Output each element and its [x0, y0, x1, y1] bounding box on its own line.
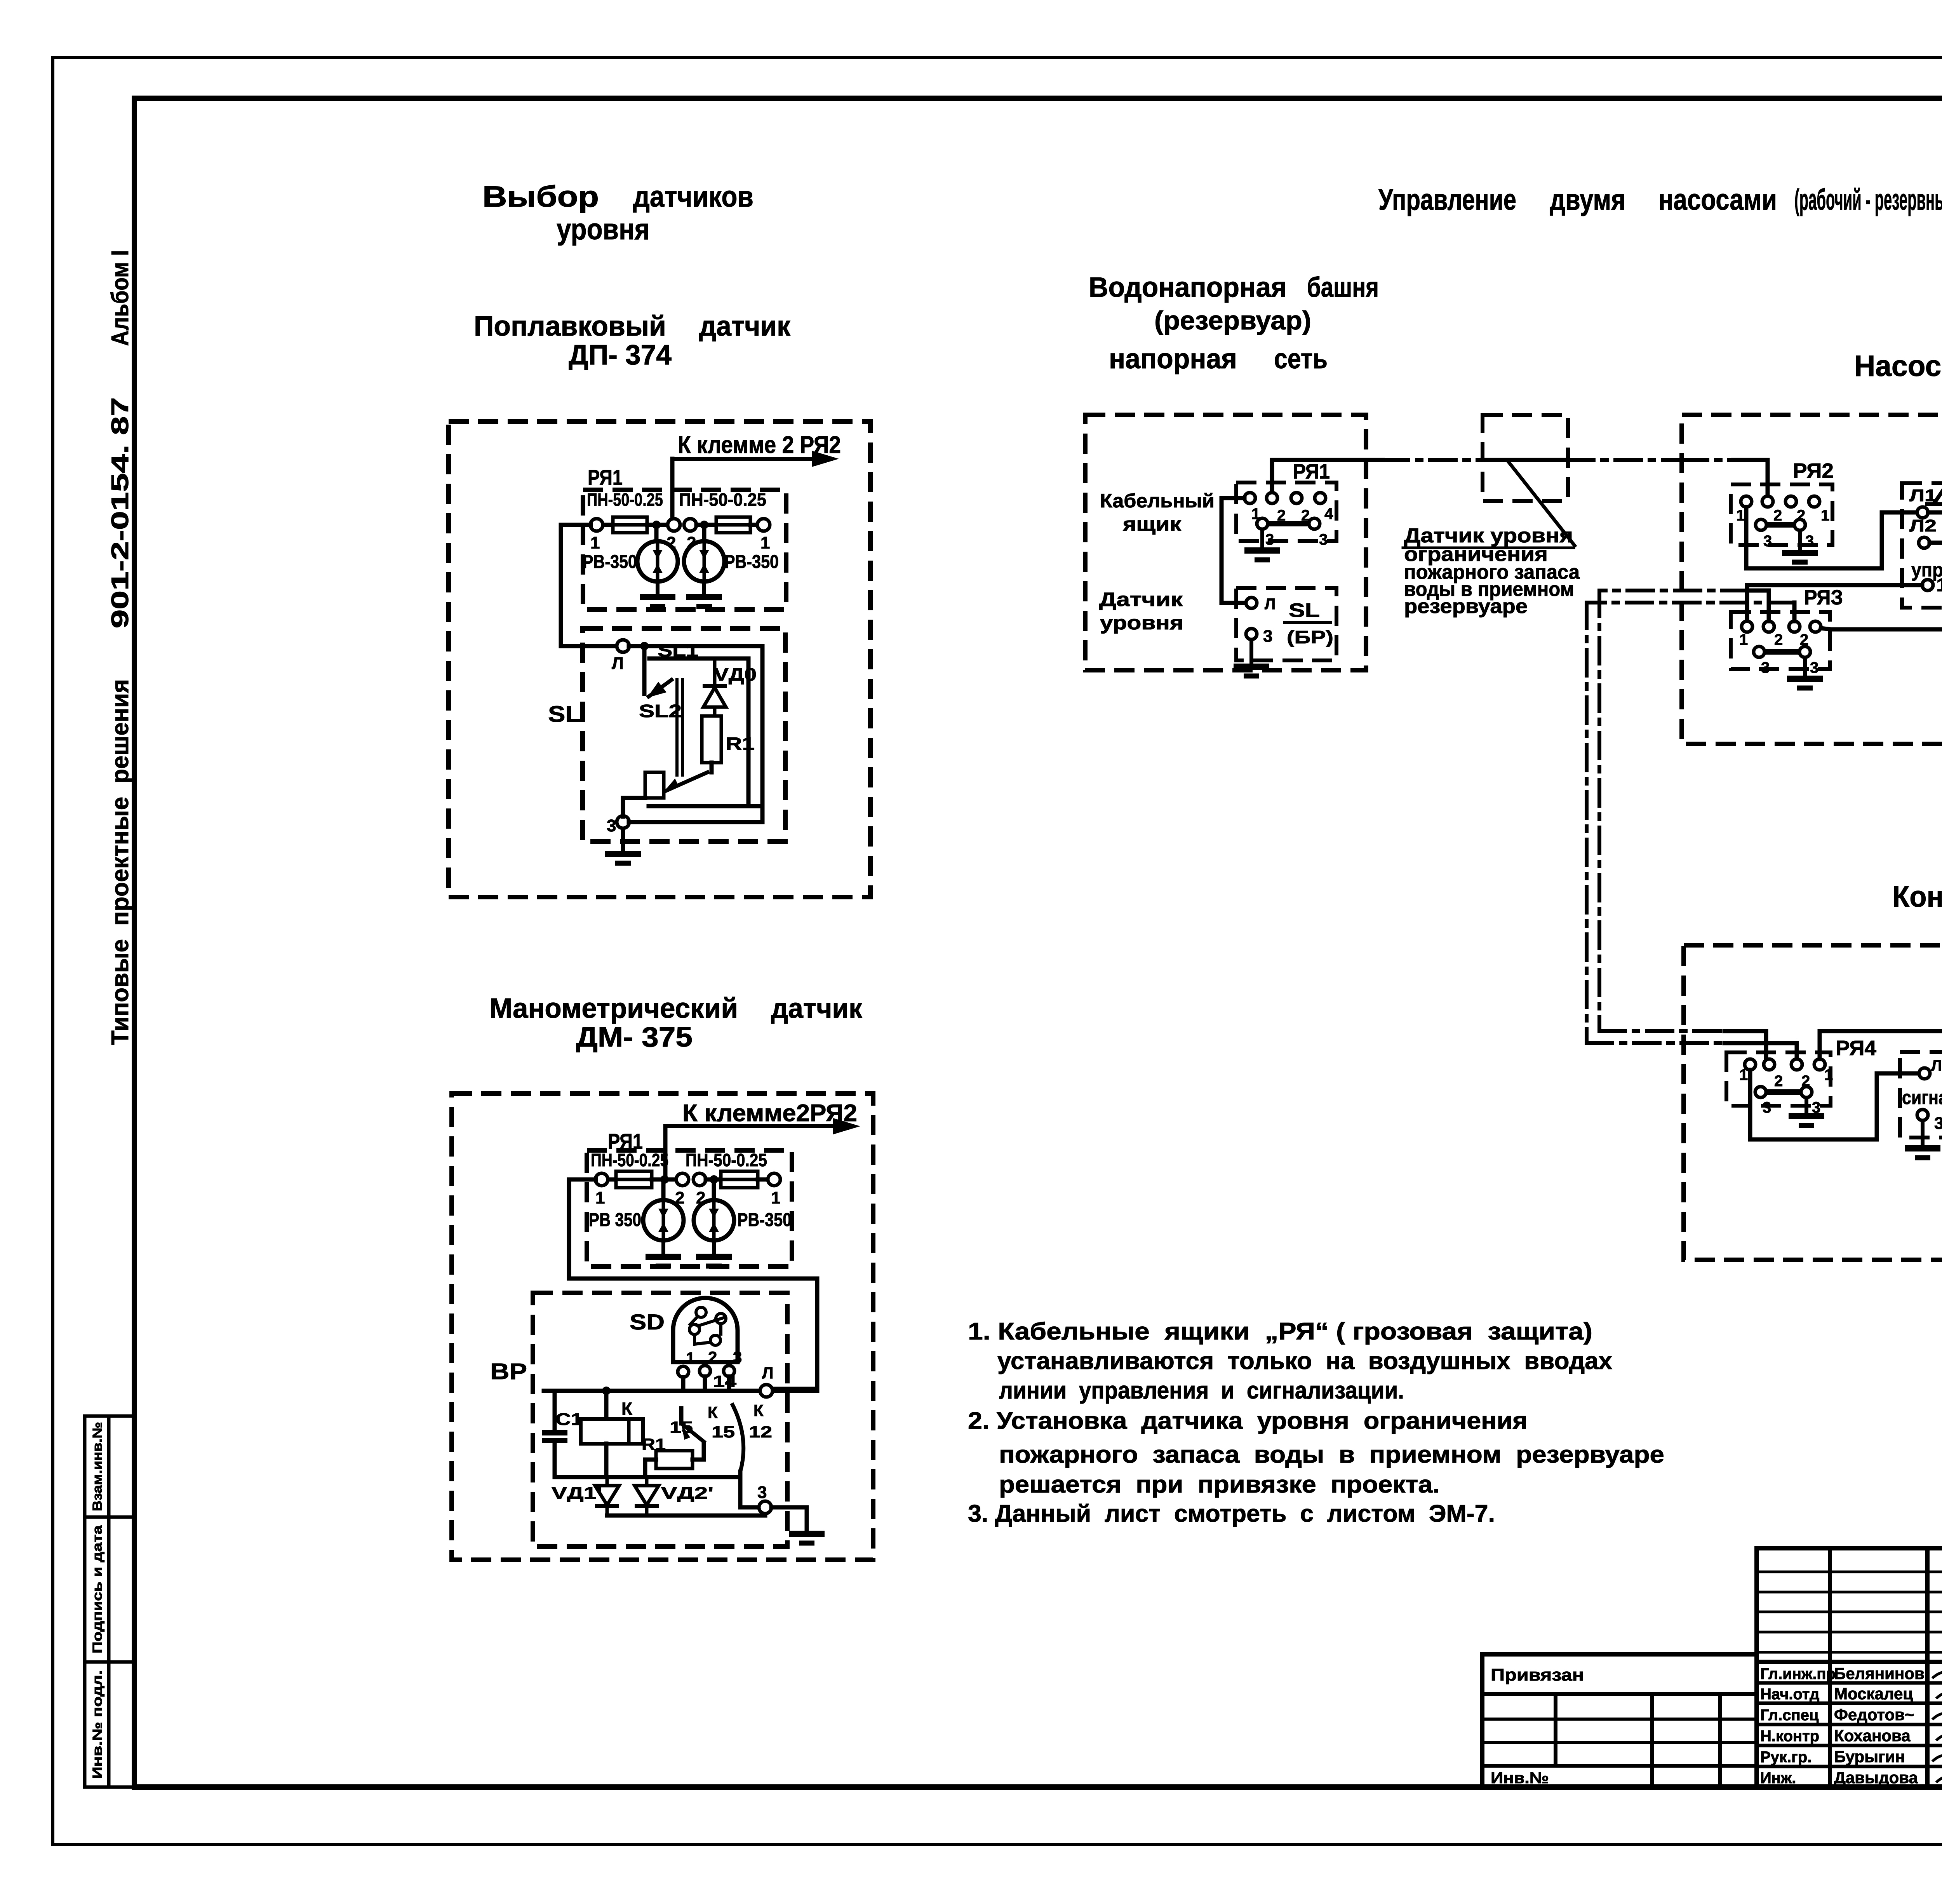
terminal 2: [668, 519, 680, 531]
svg-text:К: К: [753, 1401, 764, 1420]
svg-text:Н.контр: Н.контр: [1760, 1728, 1819, 1745]
ground under terminal 3: [605, 828, 641, 863]
terminal 2 of SD: [700, 1366, 710, 1376]
svg-text:ВР: ВР: [490, 1359, 527, 1384]
svg-text:3: 3: [733, 1348, 742, 1366]
wire 1-ЯУ:10 to РЯЗ:1: [1747, 585, 1922, 621]
svg-text:Датчик: Датчик: [1099, 589, 1183, 610]
terminal 2: [1785, 496, 1796, 507]
svg-text:ДМ- 375: ДМ- 375: [576, 1022, 693, 1053]
diode VД1: [595, 1477, 619, 1516]
svg-text:901-2-0154. 87: 901-2-0154. 87: [107, 397, 134, 629]
svg-text:1: 1: [1739, 1066, 1748, 1084]
svg-text:Федотов~: Федотов~: [1834, 1705, 1914, 1724]
float sensor ДП-374 outer dashed box: [449, 422, 870, 897]
svg-text:3: 3: [1805, 533, 1814, 550]
svg-text:линии управления и сигнализ: линии управления и сигнализации.: [999, 1377, 1404, 1404]
svg-text:Водонапорная: Водонапорная: [1089, 272, 1287, 303]
wire to РЯ2 terminal 2: [1733, 460, 1768, 496]
ground under right arrester: [696, 1240, 732, 1266]
terminal 1: [1742, 621, 1752, 632]
svg-text:Коханова: Коханова: [1834, 1726, 1911, 1745]
cable box РЯ1 dashed box: [583, 490, 786, 610]
svg-text:3: 3: [1763, 1099, 1771, 1116]
svg-text:1: 1: [1821, 507, 1829, 524]
svg-text:ПН-50-0.25: ПН-50-0.25: [591, 1150, 668, 1170]
pressure sensor ВР dashed box: [533, 1293, 787, 1547]
signatures: [1932, 1668, 1942, 1679]
wire to РЯ4:2: [1724, 1031, 1766, 1059]
wire: [561, 523, 613, 527]
terminal 1: [1741, 496, 1752, 507]
fuse ПН-50-0.25 left: [616, 1171, 652, 1188]
svg-text:насосами: насосами: [1658, 183, 1777, 216]
wire: [629, 806, 762, 822]
terminal 2: [1762, 496, 1773, 507]
svg-text:SD: SD: [630, 1310, 665, 1334]
ground under left arrester: [646, 1240, 681, 1266]
svg-text:3: 3: [757, 1483, 767, 1502]
terminal 2 right: [693, 1173, 706, 1186]
svg-text:3: 3: [1810, 659, 1818, 676]
arrester РВ-350 left: [637, 541, 678, 582]
jumper bar 3-3: [1766, 522, 1794, 528]
svg-text:4: 4: [1324, 505, 1333, 523]
terminal Л: [617, 640, 629, 652]
stamp cell Взам.инв.№: [85, 1416, 134, 1517]
svg-text:Нач.отд: Нач.отд: [1760, 1686, 1819, 1703]
wire РЯ4:1 to 1-ЯС Л: [1750, 1070, 1919, 1139]
level sensor SL dashed box: [1236, 588, 1336, 660]
svg-text:К: К: [621, 1399, 633, 1419]
svg-text:Л: Л: [1931, 1057, 1942, 1074]
terminal 1 right: [768, 1173, 780, 1186]
svg-text:РЯ1: РЯ1: [588, 465, 623, 490]
svg-text:2. Установка датчика уровня: 2. Установка датчика уровня ограничения: [968, 1408, 1528, 1434]
wire РЯ2:1 to 1-ЯУ Л1: [1746, 507, 1917, 568]
wire: [710, 763, 714, 772]
binding table frame: [1482, 1654, 1757, 1787]
svg-text:Л1: Л1: [1909, 486, 1937, 505]
svg-text:сигнализации: сигнализации: [1902, 1087, 1942, 1108]
water tower cable box outer dashed box: [1085, 415, 1366, 670]
svg-text:Инв.№ подл.: Инв.№ подл.: [90, 1670, 105, 1779]
svg-text:Манометрический: Манометрический: [489, 993, 738, 1024]
svg-text:3. Данный лист смотреть с: 3. Данный лист смотреть с листом ЭМ-7.: [968, 1500, 1495, 1527]
svg-text:Привязан: Привязан: [1491, 1665, 1584, 1685]
terminal 1: [1244, 493, 1255, 503]
terminal 2: [1267, 493, 1277, 503]
fuse ПН-50-0.25 right: [721, 1171, 758, 1188]
jumper bar 3-3: [1765, 649, 1799, 655]
wire from terminal 1 down to SL: [561, 525, 618, 646]
terminal 3 of SD: [724, 1366, 734, 1376]
svg-text:Кабельный: Кабельный: [1100, 490, 1215, 512]
ground under 1-ЯС: [1905, 1120, 1940, 1158]
svg-text:10: 10: [1936, 575, 1942, 596]
callout leader line: [1507, 460, 1576, 547]
cable box РЯ4 dashed box: [1726, 1052, 1831, 1106]
svg-text:(рабочий - резервный): (рабочий - резервный): [1794, 183, 1942, 216]
terminal 3: [1799, 646, 1810, 657]
arrow to РЯ2 terminal 2: [672, 451, 839, 467]
svg-text:3: 3: [1265, 531, 1274, 548]
cable box РЯ1 dashed box: [587, 1150, 792, 1266]
junction: [660, 1175, 669, 1184]
svg-text:датчик: датчик: [699, 311, 791, 342]
manometric sensor ДМ-375 outer dashed box: [452, 1094, 873, 1560]
svg-text:VД2': VД2': [661, 1484, 713, 1503]
fuse ПН-50-0.25 left: [613, 517, 647, 533]
svg-text:Л: Л: [1265, 596, 1276, 613]
contact SL1 lead: [642, 646, 647, 694]
capacitor C1: [542, 1433, 567, 1441]
svg-text:Подпись и дата: Подпись и дата: [90, 1525, 105, 1653]
svg-text:3: 3: [1761, 659, 1770, 676]
svg-text:РЯ4: РЯ4: [1836, 1036, 1876, 1060]
svg-text:ПН-50-0.25: ПН-50-0.25: [679, 490, 766, 510]
jumper bar 3-3: [1268, 521, 1309, 526]
diode VД2: [635, 1477, 659, 1516]
contact arm: [664, 772, 709, 792]
svg-text:Гл.спец: Гл.спец: [1760, 1707, 1819, 1724]
signal cell 1-ЯС dashed box: [1900, 1052, 1942, 1138]
svg-text:14: 14: [713, 1372, 737, 1390]
bottom contact block: [645, 772, 664, 798]
svg-text:2: 2: [1774, 631, 1783, 648]
wire: [771, 1507, 807, 1530]
cable box РЯ2 dashed box: [1731, 484, 1832, 545]
svg-text:1: 1: [771, 1188, 780, 1207]
terminal 2: [1291, 493, 1302, 503]
wire РЯЗ to 2-ЯУ:10: [1821, 628, 1942, 629]
svg-text:Инж.: Инж.: [1760, 1770, 1796, 1787]
wire: [1748, 591, 1769, 621]
svg-text:3: 3: [1263, 627, 1272, 646]
svg-text:1: 1: [760, 533, 770, 552]
svg-text:Л: Л: [762, 1364, 773, 1382]
arrester РВ-350 right: [684, 541, 724, 582]
svg-text:(БР): (БР): [1287, 627, 1333, 647]
signal line dash-dot lower: [1587, 601, 1794, 604]
underline: [1403, 547, 1574, 549]
ground under РЯ4: [1789, 1097, 1824, 1125]
top band line: [134, 96, 1942, 100]
svg-text:Гл.инж.пр: Гл.инж.пр: [1760, 1665, 1836, 1683]
svg-text:РЯЗ: РЯЗ: [1804, 586, 1843, 609]
wire from terminal 1 to ВР terminal Л: [569, 1179, 817, 1389]
wire: [727, 1376, 731, 1391]
wire Л2 to arrester: [1930, 504, 1942, 543]
svg-text:3: 3: [1934, 1114, 1942, 1133]
relay coil К: [581, 1419, 643, 1444]
svg-text:РЯ1: РЯ1: [1293, 460, 1330, 483]
signal line dash-dot vertical inner: [1597, 591, 1601, 1031]
terminal 1: [1814, 1059, 1825, 1070]
wire: [702, 525, 706, 541]
wire from РЯ1 terminal 2 up: [1272, 460, 1383, 492]
ground under РЯЗ: [1787, 657, 1823, 688]
junction: [602, 1387, 611, 1395]
terminal Л: [1246, 598, 1257, 608]
svg-text:SL2: SL2: [639, 701, 682, 721]
svg-text:(резервуар): (резервуар): [1154, 306, 1311, 335]
svg-text:решается при привязке проек: решается при привязке проекта.: [999, 1471, 1440, 1498]
svg-text:Рук.гр.: Рук.гр.: [1760, 1749, 1811, 1766]
svg-text:К: К: [708, 1403, 718, 1421]
pump station outer dashed box: [1682, 415, 1942, 744]
arrow to РЯ2 terminal 2: [665, 1118, 860, 1134]
terminal 2: [676, 1173, 689, 1186]
terminal 3 right: [1309, 518, 1320, 529]
wire through box: [1483, 458, 1568, 462]
terminal 4: [1315, 493, 1326, 503]
terminal Л: [1919, 1068, 1930, 1079]
control cell 1-ЯУ dashed box: [1902, 483, 1942, 608]
inner housing top line: [649, 657, 748, 661]
contact SL2 arm: [647, 679, 673, 698]
svg-text:2: 2: [1774, 1073, 1783, 1090]
float switch housing outline: [629, 646, 762, 806]
svg-text:ДП- 374: ДП- 374: [569, 340, 672, 371]
junction: [652, 521, 661, 529]
svg-text:1: 1: [1824, 1066, 1833, 1084]
wire: [703, 1376, 707, 1391]
diode VД0: [703, 658, 727, 716]
svg-text:устанавливаются только на в: устанавливаются только на воздушных ввод…: [997, 1348, 1613, 1374]
svg-text:Взам.инв.№: Взам.инв.№: [90, 1422, 105, 1511]
stamp cell Инв.№ подл.: [85, 1662, 134, 1787]
svg-text:Инв.№: Инв.№: [1491, 1770, 1549, 1787]
wire terminal2 to arrow: [670, 459, 675, 521]
terminal 2: [1791, 1059, 1802, 1070]
svg-text:РВ-350: РВ-350: [724, 552, 779, 572]
wire: [553, 1441, 557, 1477]
svg-text:R1: R1: [642, 1435, 666, 1453]
wire: [706, 1178, 721, 1182]
wire: [661, 1184, 666, 1200]
terminal 3: [1257, 518, 1268, 529]
svg-text:Контрольный: Контрольный: [1892, 880, 1942, 913]
terminal 1 of SD: [678, 1366, 689, 1377]
terminal 1 left: [590, 519, 603, 531]
svg-text:Управление: Управление: [1378, 183, 1516, 216]
svg-text:2: 2: [1773, 507, 1782, 524]
svg-text:Альбом I: Альбом I: [107, 250, 134, 346]
wire: [758, 1178, 768, 1182]
svg-text:3: 3: [1763, 533, 1772, 550]
ground: [789, 1530, 825, 1543]
wire: [647, 523, 668, 527]
wire: [645, 1460, 656, 1477]
wire: [652, 1178, 677, 1182]
svg-text:сеть: сеть: [1274, 343, 1328, 375]
terminal 2 right: [684, 519, 696, 531]
svg-text:датчиков: датчиков: [633, 180, 753, 213]
cable box РЯЗ dashed box: [1731, 612, 1830, 669]
svg-text:2: 2: [708, 1348, 717, 1366]
wire: [712, 1184, 716, 1200]
ground under SL: [1234, 639, 1269, 676]
signal line dash-dot into control point upper: [1599, 1029, 1724, 1033]
terminal 3: [617, 816, 629, 828]
jumper bar 3-3: [1766, 1089, 1801, 1095]
svg-text:VД0: VД0: [714, 664, 757, 685]
wire Л1 to arrester: [1928, 504, 1942, 512]
svg-text:напорная: напорная: [1109, 343, 1237, 375]
control point outer dashed box: [1684, 945, 1942, 1260]
terminal 1: [1745, 1059, 1756, 1070]
contact К 15: [681, 1423, 705, 1443]
svg-text:3: 3: [607, 816, 616, 835]
arrester 1-ЯУ: [1925, 487, 1942, 504]
svg-text:РЯ2: РЯ2: [1793, 459, 1834, 483]
wire: [1792, 603, 1797, 621]
signal line dash-dot vertical outer: [1585, 603, 1589, 1043]
wire terminal1 to SL: [1222, 498, 1246, 603]
terminal 1 left: [595, 1173, 608, 1186]
title block: personnel table: [1757, 1546, 1942, 1550]
junction: [700, 521, 708, 529]
terminal 3: [759, 1501, 771, 1514]
wire: [696, 523, 716, 527]
arrester РВ-350 left: [643, 1200, 684, 1240]
svg-text:1: 1: [686, 1349, 695, 1367]
svg-text:1: 1: [590, 533, 600, 552]
control line dash-dot inside box: [1682, 458, 1733, 462]
wire: [654, 525, 659, 541]
terminal 2: [1764, 1059, 1775, 1070]
svg-text:1. Кабельные ящики „РЯ“ ( гр: 1. Кабельные ящики „РЯ“ ( грозовая защит…: [968, 1318, 1592, 1345]
svg-text:Л2: Л2: [1909, 516, 1937, 535]
wire terminal2 to arrow: [663, 1126, 668, 1177]
wire: [693, 1443, 704, 1460]
control line dash-dot: [1383, 458, 1483, 462]
terminal 3: [1801, 1087, 1812, 1097]
manometer SD body: [673, 1298, 738, 1362]
wire: [679, 1408, 684, 1423]
wire РЯ4:1 to 2-ЯС Л: [1820, 1031, 1942, 1067]
resistor R1: [702, 716, 721, 763]
svg-text:Давыдова: Давыдова: [1834, 1768, 1918, 1787]
svg-text:ящик: ящик: [1122, 513, 1182, 535]
svg-text:РВ-350: РВ-350: [737, 1210, 792, 1230]
terminal 1: [1810, 621, 1821, 632]
manometer contact studs: [696, 1307, 706, 1317]
fraction bar: [1285, 621, 1330, 624]
terminal 1: [1809, 496, 1820, 507]
terminal 3: [1917, 1110, 1928, 1120]
inner housing right line: [747, 658, 751, 804]
svg-text:Л: Л: [612, 654, 624, 673]
float switch SL dashed box: [583, 629, 785, 841]
control line dash-dot to pump station: [1568, 458, 1682, 462]
junction: [710, 1175, 718, 1184]
svg-text:Бурыгин: Бурыгин: [1834, 1747, 1905, 1766]
ground under РЯ1: [1244, 529, 1280, 560]
svg-text:К клемме2РЯ2: К клемме2РЯ2: [682, 1100, 857, 1127]
svg-text:башня: башня: [1307, 272, 1379, 303]
svg-text:Москалец: Москалец: [1834, 1685, 1913, 1703]
svg-text:ПН-50-0.25: ПН-50-0.25: [686, 1150, 767, 1170]
junction: [640, 642, 649, 650]
terminal Л2: [1919, 537, 1930, 548]
svg-text:R1: R1: [726, 733, 755, 754]
signal line dash-dot upper: [1599, 589, 1748, 592]
float rod line 2: [681, 680, 684, 775]
cable box РЯ1 dashed box: [1236, 483, 1336, 541]
svg-text:1: 1: [1739, 631, 1748, 648]
svg-text:SL: SL: [548, 702, 581, 727]
wire lowest rail: [607, 1514, 765, 1518]
terminal 3: [1794, 519, 1805, 530]
ground under right arrester: [686, 582, 722, 606]
wire rail to Л: [544, 1389, 817, 1393]
svg-text:1: 1: [595, 1188, 605, 1207]
arrester РВ-350 right: [694, 1200, 734, 1240]
svg-text:SL: SL: [1289, 599, 1320, 621]
svg-text:РВ 350: РВ 350: [589, 1210, 641, 1230]
wire: [623, 798, 645, 817]
terminal 3: [1756, 519, 1766, 530]
fuse ПН-50-0.25 right: [716, 517, 750, 533]
svg-text:3: 3: [1319, 531, 1328, 548]
terminal 2: [1763, 621, 1774, 632]
svg-text:Насосная: Насосная: [1854, 350, 1942, 383]
terminal 3: [1754, 646, 1765, 657]
svg-text:Выбор: Выбор: [482, 180, 599, 213]
svg-text:12: 12: [749, 1423, 772, 1441]
terminal Л: [760, 1385, 773, 1397]
stamp cell Подпись и дата: [85, 1517, 134, 1662]
signal line dash-dot into control point lower: [1587, 1041, 1724, 1045]
ground under left arrester: [640, 582, 675, 606]
svg-text:уровня: уровня: [1100, 612, 1183, 634]
svg-text:датчик: датчик: [771, 993, 863, 1024]
wire: [569, 1178, 616, 1182]
svg-text:РВ-350: РВ-350: [583, 552, 637, 572]
float rod line 1: [675, 680, 679, 775]
terminal 10: [1922, 580, 1933, 591]
svg-text:пожарного запаса воды в пр: пожарного запаса воды в приемном резерву…: [999, 1441, 1664, 1468]
ground under РЯ2: [1782, 530, 1818, 562]
svg-text:С1: С1: [555, 1410, 583, 1429]
svg-text:1: 1: [1736, 507, 1745, 524]
manometer internal links: [691, 1317, 726, 1326]
wire to РЯ4:2 right: [1724, 1043, 1797, 1059]
svg-text:резервуаре: резервуаре: [1404, 595, 1528, 618]
wire: [604, 1391, 609, 1419]
svg-text:Поплавковый: Поплавковый: [474, 311, 666, 342]
svg-text:Белянинов: Белянинов: [1834, 1664, 1925, 1683]
wire: [553, 1391, 557, 1433]
terminal 2: [1789, 621, 1800, 632]
wire: [750, 523, 757, 527]
svg-text:ПН-50-0.25: ПН-50-0.25: [587, 490, 663, 510]
wire bottom rail: [555, 1475, 737, 1479]
terminal 3: [1755, 1087, 1766, 1097]
svg-text:15: 15: [712, 1423, 735, 1441]
svg-text:уровня: уровня: [557, 213, 650, 246]
svg-text:Типовые проектные решения: Типовые проектные решения: [107, 679, 134, 1045]
wire: [740, 1472, 760, 1507]
svg-text:VД1': VД1': [552, 1484, 602, 1503]
contact К 12: [732, 1403, 743, 1472]
terminal 1 right: [757, 519, 770, 531]
resistor R1: [656, 1451, 693, 1469]
limit level sensor dashed box: [1483, 415, 1568, 501]
terminal Л1: [1917, 507, 1928, 518]
